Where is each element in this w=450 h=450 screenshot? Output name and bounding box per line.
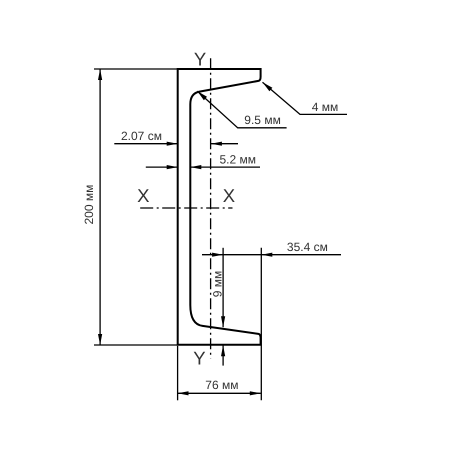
dimension 2.07 cm arrow right bbox=[167, 142, 178, 146]
X axis centerline (horizontal dash-dot) bbox=[140, 207, 232, 209]
top extension line bbox=[94, 68, 178, 70]
svg-text:200 мм: 200 мм bbox=[82, 185, 96, 225]
channel section profile outline bbox=[178, 69, 261, 345]
dimension 5.2 mm arrow right bbox=[167, 165, 178, 169]
dimension 200 mm arrow up bbox=[98, 69, 102, 80]
dimension 200 mm arrow down bbox=[98, 334, 102, 345]
dimension 35.4 cm arrow right bbox=[212, 253, 223, 257]
leader 9.5 mm arrow bbox=[197, 91, 207, 100]
svg-text:9 мм: 9 мм bbox=[211, 271, 225, 298]
svg-text:X: X bbox=[137, 185, 149, 206]
dimension 5.2 mm right line bbox=[190, 166, 260, 168]
dimension 200 mm line bbox=[99, 69, 101, 345]
svg-text:35.4 см: 35.4 см bbox=[287, 240, 328, 254]
svg-text:9.5 мм: 9.5 мм bbox=[244, 113, 281, 127]
dimension 9 mm lower line bbox=[222, 345, 224, 365]
Y axis centerline (vertical dash-dot) bbox=[210, 58, 212, 358]
dimension 76 mm arrow right bbox=[250, 391, 261, 395]
svg-text:X: X bbox=[223, 185, 235, 206]
dimension 76 mm line bbox=[178, 392, 261, 394]
dimension 5.2 mm left line bbox=[146, 166, 178, 168]
dimension 9 mm arrow up bbox=[221, 345, 225, 356]
right extension line bbox=[260, 248, 262, 400]
bottom extension line bbox=[94, 344, 178, 346]
svg-text:4 мм: 4 мм bbox=[312, 100, 339, 114]
dimension 35.4 cm line bbox=[202, 254, 341, 256]
svg-text:76 мм: 76 мм bbox=[205, 378, 238, 392]
svg-text:2.07 см: 2.07 см bbox=[121, 129, 162, 143]
leader 4 mm arrow bbox=[263, 82, 273, 91]
leader 9.5 mm line bbox=[197, 91, 286, 128]
dimension 5.2 mm arrow left bbox=[190, 165, 201, 169]
svg-text:Y: Y bbox=[194, 49, 206, 70]
left bottom extension line bbox=[177, 346, 179, 400]
leader 4 mm line bbox=[263, 82, 348, 114]
dimension 2.07 cm arrow left bbox=[211, 142, 222, 146]
dimension 9 mm arrow down bbox=[221, 316, 225, 327]
dimension 2.07 cm right line bbox=[211, 143, 238, 145]
dimension 76 mm arrow left bbox=[178, 391, 189, 395]
dimension 35.4 cm arrow left bbox=[261, 253, 272, 257]
svg-text:Y: Y bbox=[193, 347, 205, 368]
svg-text:5.2 мм: 5.2 мм bbox=[220, 152, 257, 166]
dimension 9 mm upper line bbox=[222, 248, 224, 327]
dimension 2.07 cm left line bbox=[114, 143, 177, 145]
